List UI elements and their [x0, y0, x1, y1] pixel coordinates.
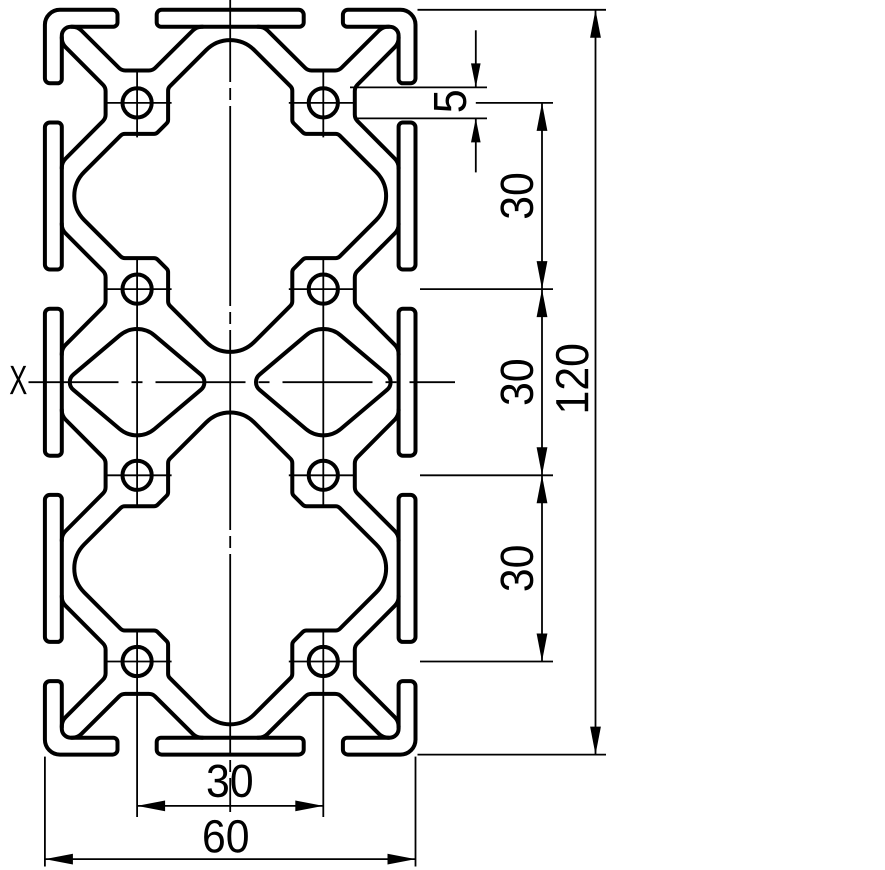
dim 30 arrow up row1: [537, 103, 548, 131]
crosshair h bore (323.3,475.3): [289, 474, 355, 476]
outer wall: left face piece 1: [45, 123, 62, 270]
dim 30 arrow down row2a: [537, 261, 548, 289]
dim 120 arrow down: [590, 727, 601, 755]
crosshair v bore (137.1,102.9): [136, 71, 138, 138]
dim 60 line: [45, 858, 416, 860]
slot floor, top slot x=323.3: [258, 27, 389, 71]
dim text 120: [556, 345, 589, 411]
dim 30 arrow up row3b: [537, 475, 548, 503]
bore circle at (323.3,102.9): [309, 88, 338, 117]
ext line bottom face: [418, 754, 607, 756]
crosshair h bore (137.1,289.1): [106, 288, 172, 290]
crosshair v bores rows 2-3 x=137.1: [136, 258, 138, 506]
crosshair h bore (137.1,475.3): [106, 474, 172, 476]
slot floor, right slot y=661.5: [355, 596, 399, 727]
label X: [10, 366, 27, 394]
ext line 5-dim lower: [356, 117, 487, 119]
dim text 30 lower: [500, 546, 533, 590]
crosshair v bore row4 + bottom dim extension x=137.1: [136, 631, 138, 818]
slot floor, right slot y=289.1: [355, 224, 399, 355]
dim 30 arrow down row3a: [537, 447, 548, 475]
dim 30 arrow down row4: [537, 634, 548, 662]
ext line 5-dim upper: [350, 86, 487, 88]
dim 120 arrow up: [590, 10, 601, 38]
dim text 30 upper: [500, 174, 533, 218]
dim 5 upper tail: [475, 30, 477, 87]
outer wall: bottom-right corner piece: [343, 681, 416, 755]
dim 5 upper arrow: [471, 63, 481, 87]
crosshair h bore (137.1,661.5): [106, 661, 172, 663]
outer wall: bottom-left corner piece: [45, 681, 118, 755]
crosshair v bores rows 2-3 x=323.3: [322, 258, 324, 506]
slot floor, right slot y=102.9: [355, 37, 399, 168]
outer wall: right face piece 2: [399, 309, 416, 456]
outer wall: right face piece 3: [399, 495, 416, 642]
ext line bottom-left corner: [44, 757, 46, 867]
dim 60 left arrow: [45, 854, 73, 865]
bore circle at (137.1,102.9): [123, 88, 152, 117]
dim 30 arrow up row2b: [537, 289, 548, 317]
outer wall: top-left corner piece: [45, 10, 118, 84]
slot floor, left slot y=289.1: [62, 224, 106, 355]
slot floor, bottom slot x=323.3: [258, 694, 389, 738]
crosshair v bore row4 + bottom dim extension x=323.3: [322, 631, 324, 818]
slot floor, left slot y=475.3: [62, 410, 106, 541]
quatrefoil cavity at (230.2,568.4): [74, 412, 386, 724]
bore circle at (323.3,475.3): [309, 461, 338, 490]
crosshair h bore (323.3,289.1): [289, 288, 355, 290]
dim text 30 middle: [500, 360, 533, 404]
outer wall: top face mid piece: [157, 10, 304, 27]
dim text 60: [204, 820, 248, 853]
slot floor, left slot y=102.9: [62, 37, 106, 168]
ext line row y=475.3: [420, 474, 553, 476]
bore circle at (137.1,289.1): [123, 275, 152, 304]
dim 120 line: [595, 10, 597, 755]
dim 30 bottom line: [137, 805, 323, 807]
outer wall: left face piece 3: [45, 495, 62, 642]
dim 5 lower arrow: [471, 118, 481, 142]
slot floor, top slot x=137.1: [72, 27, 203, 71]
dim 30 bottom right arrow: [295, 801, 323, 812]
outer wall: right face piece 1: [399, 123, 416, 270]
crosshair h bore (323.3,102.9): [289, 102, 355, 104]
bore circle at (137.1,475.3): [123, 461, 152, 490]
slot floor, right slot y=475.3: [355, 410, 399, 541]
dim text 30 bottom: [208, 764, 252, 797]
outer wall: left face piece 2: [45, 309, 62, 456]
outer wall: top-right corner piece: [343, 10, 416, 84]
ext line top face: [418, 9, 607, 11]
bore circle at (137.1,661.5): [123, 647, 152, 676]
dim 60 right arrow: [388, 854, 416, 865]
slot floor, bottom slot x=137.1: [72, 694, 203, 738]
crosshair h bore (323.3,661.5): [289, 661, 355, 663]
dim 5 lower tail: [475, 118, 477, 172]
ext line row y=661.5: [420, 661, 553, 663]
dim text 5: [434, 91, 466, 111]
diamond cavity at (137.1,382.2): [70, 329, 205, 435]
crosshair h bore (137.1,102.9): [106, 102, 172, 104]
bore circle at (323.3,289.1): [309, 275, 338, 304]
ext line row1: [476, 102, 553, 104]
dim 30 bottom left arrow: [137, 801, 165, 812]
bore circle at (323.3,661.5): [309, 647, 338, 676]
horizontal center line X: [29, 381, 456, 383]
ext line bottom-right corner: [415, 757, 417, 867]
diamond cavity at (323.3,382.2): [256, 329, 391, 435]
dim 30-chain line: [541, 103, 543, 662]
crosshair v bore (323.3,102.9): [322, 71, 324, 138]
slot floor, left slot y=661.5: [62, 596, 106, 727]
ext line row y=289.1: [420, 288, 553, 290]
quatrefoil cavity at (230.2,196): [74, 40, 386, 352]
outer wall: bottom face mid piece: [157, 738, 304, 755]
vertical center line: [229, 0, 231, 812]
